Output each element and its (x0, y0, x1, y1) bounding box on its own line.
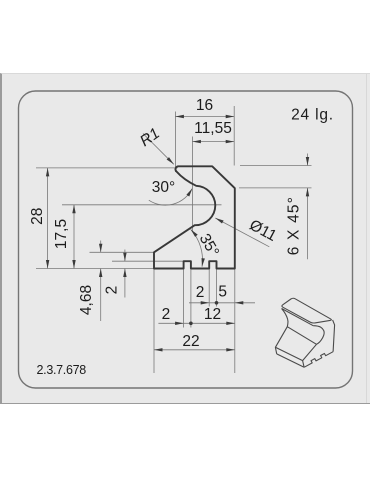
extension line: arc centre height (17,5 top) (62, 204, 222, 206)
extension line: peak height (28 top) (36, 167, 178, 169)
dimension 16 (top width) (175, 97, 234, 118)
extension line: right edge vertical shared (16 / 11,55) (233, 106, 235, 166)
svg-text:24 lg.: 24 lg. (291, 107, 334, 124)
dimension 35° (angle arc) (191, 229, 222, 266)
svg-text:28: 28 (29, 208, 46, 225)
dimension 2 (notch depth) (104, 250, 127, 298)
extension line: chamfer bottom, to right (6x45) (239, 187, 312, 189)
svg-text:2: 2 (196, 284, 205, 301)
dimension 2 and 5 (right notch row) (189, 283, 255, 304)
svg-text:17,5: 17,5 (53, 219, 70, 249)
dimension 30° (angle arc) (149, 179, 193, 205)
leader R1 (tip radius) (137, 125, 174, 164)
extension line: below left notch right wall (190, 270, 192, 328)
svg-text:12: 12 (204, 306, 221, 323)
leader Ø11 (arc diameter) (215, 217, 279, 247)
svg-text:5: 5 (218, 283, 227, 300)
extension line: profile bottom, to left (36, 268, 154, 270)
extension line: notch depth (2 left top) (112, 260, 184, 262)
isometric part icon (275, 298, 334, 367)
label 24 lg. (length) (291, 107, 334, 124)
part number 2.3.7.678 (37, 363, 87, 377)
extension line: below left edge (153, 270, 155, 374)
svg-text:2: 2 (162, 306, 171, 323)
svg-text:6 X 45°: 6 X 45° (286, 196, 303, 255)
dimension 11,55 (192, 120, 234, 143)
svg-text:30°: 30° (152, 179, 175, 196)
extension line: 11,55 left vertical (191, 137, 193, 233)
svg-text:22: 22 (182, 333, 199, 350)
extension line: below right edge (234, 270, 236, 374)
svg-text:2: 2 (104, 286, 121, 295)
extension line: below left notch left wall (183, 270, 185, 328)
drawing frame (rounded border) (19, 91, 353, 388)
dimension 4,68 (78, 241, 102, 322)
dimension 2 and 12 (left notch row) (158, 306, 234, 325)
dimension 22 (total width) (154, 333, 235, 351)
dimension 28 (total height) (29, 168, 49, 269)
extension line: below right notch right wall (216, 270, 218, 307)
extension line: top edge, to right (6x45) (240, 165, 312, 167)
extension line: left corner height (4,68 top) (90, 251, 155, 253)
svg-text:11,55: 11,55 (194, 120, 232, 137)
svg-text:2.3.7.678: 2.3.7.678 (37, 363, 87, 377)
svg-text:35°: 35° (196, 231, 222, 260)
dimension 17,5 (53, 205, 75, 269)
svg-text:R1: R1 (137, 125, 163, 150)
extension line: below right notch left wall (208, 270, 210, 307)
svg-text:Ø11: Ø11 (246, 217, 279, 245)
profile outline (tool cross-section) (154, 166, 235, 268)
dimension 6 X 45° (chamfer) (286, 154, 310, 260)
svg-text:4,68: 4,68 (78, 285, 95, 315)
svg-text:16: 16 (196, 97, 213, 114)
extension line: peak vertical (16 left) (174, 112, 176, 173)
